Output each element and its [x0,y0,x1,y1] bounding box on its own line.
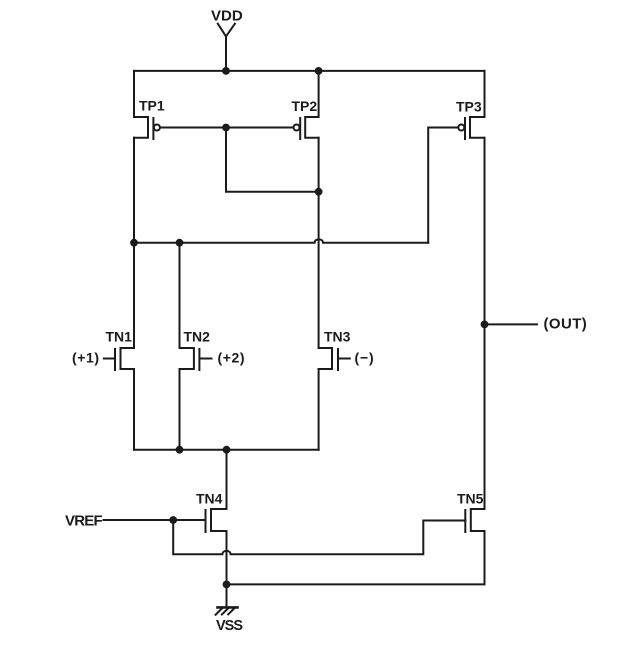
transistor TP1 [134,71,160,139]
wire: gate line TP1-TP2 [160,127,293,129]
svg-text:(+1): (+1) [72,350,100,366]
node: VSS junction dot [223,581,231,589]
transistor TN3 [319,348,350,370]
node: VDD junction dot [222,67,230,75]
node: OUT dot [481,321,489,329]
transistor TN4 [104,509,227,532]
wire: TP3 gate lead to node line [428,128,458,243]
wire: VREF zigzag to TN5 gate with hop over TN4 source [173,520,465,554]
wire: tail down to TN4 [226,450,228,509]
node: gate line junction dot [222,124,230,132]
svg-text:TN4: TN4 [196,491,223,507]
svg-text:VREF: VREF [65,512,102,529]
wire: TN5 source down and VSS rail [227,531,485,584]
svg-text:TP2: TP2 [292,98,318,114]
ground symbol [216,607,238,614]
wire: first-stage node line with hop over TP2 drain [134,239,428,242]
svg-text:TP3: TP3 [456,99,482,115]
wire: common source rail [134,449,319,451]
wire: TP1 drain down to node line [133,138,135,243]
node: TP1/TN1 drain dot [130,239,138,247]
transistor TN2 [180,348,212,370]
wire: TP2 drain down to TN3 [318,138,320,348]
node: TN2 source dot [176,446,184,454]
wire: TN4 source down to VSS rail [226,531,228,584]
wire: OUT stub [485,323,538,325]
svg-text:(−): (−) [355,350,375,366]
transistor TP3 [458,71,484,139]
wire: TN1 source down [133,369,135,450]
node: TN2 drain dot [176,239,184,247]
wire: top VDD rail [134,70,485,72]
wire: TP2 diode connection [226,128,319,192]
svg-text:VDD: VDD [211,7,243,24]
svg-text:TN1: TN1 [106,329,133,345]
svg-text:TN5: TN5 [457,491,484,507]
node: VREF junction dot [169,516,177,524]
svg-text:TN3: TN3 [324,329,351,345]
wire: down to ground [226,584,228,607]
VDD power symbol [218,24,235,71]
svg-text:TN2: TN2 [184,329,211,345]
wire: TN3 source down [318,369,320,450]
transistor TN5 [465,509,484,532]
svg-text:(+2): (+2) [218,350,246,366]
node: tail junction dot [223,446,231,454]
node: TP2 source junction dot [315,67,323,75]
node: TP2 drain junction dot [315,188,323,196]
wire: TP3 drain down to TN5 [484,138,486,509]
wire: TN2 drain vertical [179,243,181,348]
transistor TN1 [104,243,134,370]
wire: TN2 source down [179,369,181,450]
transistor TP2 [294,71,319,139]
svg-text:TP1: TP1 [139,98,165,114]
svg-text:(OUT): (OUT) [544,316,588,333]
svg-text:VSS: VSS [216,618,243,634]
